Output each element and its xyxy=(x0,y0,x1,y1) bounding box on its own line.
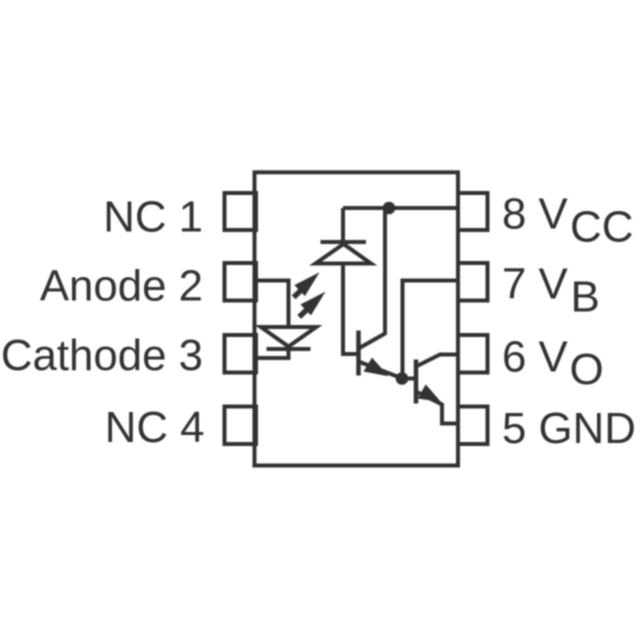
junction node at VCC rail xyxy=(383,202,396,215)
IC body U1 xyxy=(255,172,459,465)
pin 3 box xyxy=(225,335,257,373)
transistor Q1 emitter arrowhead xyxy=(364,358,389,377)
LED D1 cathode bar xyxy=(267,347,311,351)
photodiode D2 triangle xyxy=(316,244,372,264)
wire VB from pin 7 xyxy=(403,281,459,379)
svg-text:7 V: 7 V xyxy=(502,260,569,309)
pin 5 box xyxy=(458,407,488,445)
pin 7 box xyxy=(458,263,488,301)
svg-text:Cathode 3: Cathode 3 xyxy=(1,331,203,380)
transistor Q2 emitter arrowhead xyxy=(418,384,442,402)
svg-text:NC 1: NC 1 xyxy=(103,193,203,242)
transistor Q1 emitter wire xyxy=(359,362,403,379)
transistor Q1 collector wire xyxy=(359,208,386,349)
photodiode D2 cathode wire xyxy=(341,208,345,242)
photodiode D2 cathode bar xyxy=(321,240,367,244)
pin 8 box xyxy=(458,193,488,230)
wire Q1 emitter node to Q2 base xyxy=(403,377,417,381)
light arrow 1 xyxy=(288,266,324,302)
svg-text:O: O xyxy=(570,345,604,394)
wire LED anode from pin 2 xyxy=(255,281,289,328)
svg-text:8 V: 8 V xyxy=(502,190,569,239)
junction node Q1 emitter / Q2 base xyxy=(396,372,409,385)
transistor Q1 base bar xyxy=(356,331,361,376)
svg-text:NC 4: NC 4 xyxy=(105,403,205,452)
light arrow 2 xyxy=(294,286,331,322)
pin 2 box xyxy=(225,263,257,301)
transistor Q2 collector wire to pin 6 xyxy=(416,355,458,367)
svg-text:6 V: 6 V xyxy=(502,332,569,381)
svg-text:Anode 2: Anode 2 xyxy=(40,261,203,310)
pin 4 box xyxy=(225,407,257,445)
wire VCC top rail to pin 8 xyxy=(343,206,458,210)
pin 6 box xyxy=(458,335,488,373)
svg-text:B: B xyxy=(571,272,600,321)
svg-text:CC: CC xyxy=(570,203,634,252)
wire LED cathode to pin 3 xyxy=(255,347,289,359)
transistor Q2 base bar xyxy=(414,360,419,404)
LED D1 triangle xyxy=(261,327,317,347)
wire photodiode anode to Q1 base xyxy=(343,264,359,355)
pin 1 box xyxy=(225,193,257,230)
transistor Q2 emitter wire to pin 5 xyxy=(416,392,458,424)
svg-text:5 GND: 5 GND xyxy=(502,404,636,453)
